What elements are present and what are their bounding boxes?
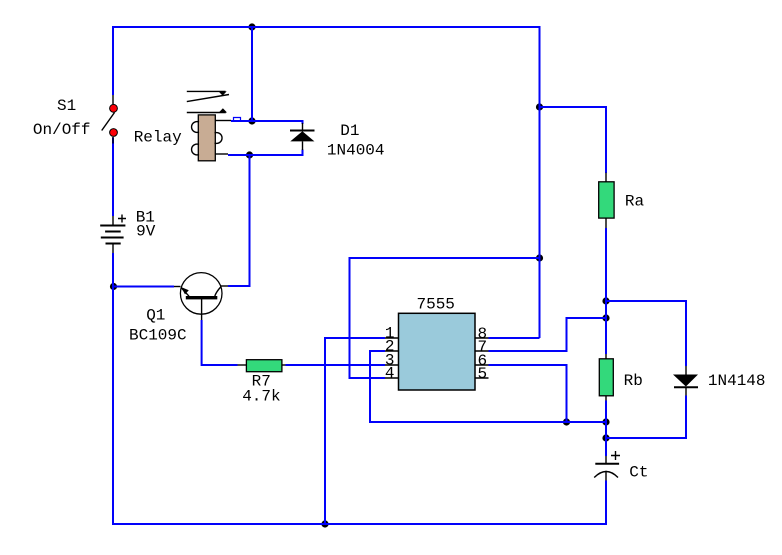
battery B1 xyxy=(100,215,126,254)
label Relay xyxy=(134,129,182,147)
wire Ra bottom to Rb top xyxy=(605,228,607,354)
svg-text:D1: D1 xyxy=(340,122,359,140)
wire S1 top xyxy=(112,26,114,95)
pin 1 xyxy=(385,325,395,343)
wire V+ vertical xyxy=(539,26,541,338)
svg-text:Ra: Ra xyxy=(625,193,645,211)
wire to Ra top xyxy=(540,107,607,173)
label Rb xyxy=(624,372,643,390)
label Q1 xyxy=(146,307,165,325)
svg-text:7555: 7555 xyxy=(417,296,455,314)
svg-text:5: 5 xyxy=(478,365,488,383)
junction Ct top xyxy=(602,434,609,441)
wire diode branch bottom xyxy=(606,396,686,439)
svg-text:Relay: Relay xyxy=(134,129,182,147)
wire base to R7 xyxy=(202,320,238,365)
pin 4 xyxy=(385,365,395,383)
wire battery to bottom rail xyxy=(112,253,114,525)
wire pin4 to V+ xyxy=(350,258,540,378)
svg-text:On/Off: On/Off xyxy=(33,121,91,139)
svg-text:1N4004: 1N4004 xyxy=(327,142,385,160)
pin 6 xyxy=(478,352,488,370)
wire pin2 xyxy=(370,351,606,422)
pin 7 xyxy=(478,338,488,356)
wire pin8 xyxy=(489,337,540,339)
wire bottom rail xyxy=(112,523,607,525)
junction ground pin1 xyxy=(321,520,328,527)
junction Rb bottom xyxy=(602,418,609,425)
wire Ct bottom xyxy=(605,481,607,526)
wire diode branch top xyxy=(606,301,686,366)
wire relay bottom to D1 xyxy=(228,150,303,156)
junction pin7 Rb xyxy=(602,314,609,321)
label 4.7k xyxy=(242,388,280,406)
wire top rail xyxy=(113,26,540,28)
label 1N4148 xyxy=(708,372,766,390)
label 9V xyxy=(136,223,156,241)
junction Ra bottom xyxy=(602,297,609,304)
label Ra xyxy=(625,193,645,211)
wire S1 to battery xyxy=(112,138,114,217)
junction relay top xyxy=(248,117,255,124)
relay xyxy=(187,91,231,160)
label BC109C xyxy=(129,327,187,345)
resistor R7 xyxy=(238,360,286,372)
wire pin7 xyxy=(489,318,607,351)
label D1 xyxy=(340,122,359,140)
svg-text:BC109C: BC109C xyxy=(129,327,187,345)
pin 8 xyxy=(478,325,488,343)
wire R7 to pin3 xyxy=(286,364,386,366)
junction Vplus Ra xyxy=(536,103,543,110)
diode 1N4148 xyxy=(673,366,698,396)
svg-text:Rb: Rb xyxy=(624,372,643,390)
wire Rb bottom to Ct xyxy=(605,401,607,457)
IC 7555 xyxy=(385,313,489,390)
label R7 xyxy=(252,373,271,391)
junction Vplus pin4 xyxy=(536,254,543,261)
label On/Off xyxy=(33,121,91,139)
svg-text:Ct: Ct xyxy=(629,464,648,482)
junction pin6 xyxy=(563,418,570,425)
svg-text:Q1: Q1 xyxy=(146,307,165,325)
diode D1 xyxy=(290,123,315,150)
resistor Rb xyxy=(599,354,613,401)
junction top rail xyxy=(248,23,255,30)
svg-text:9V: 9V xyxy=(136,223,156,241)
wire pin6 xyxy=(489,365,567,422)
label S1 xyxy=(57,97,76,115)
label B1 xyxy=(136,209,155,227)
svg-text:4: 4 xyxy=(385,365,395,383)
wire collector to relay xyxy=(228,155,250,286)
capacitor Ct xyxy=(594,451,620,481)
svg-text:S1: S1 xyxy=(57,97,76,115)
svg-text:1N4148: 1N4148 xyxy=(708,372,766,390)
pin 2 xyxy=(385,338,395,356)
switch S1 xyxy=(102,95,118,144)
pin 3 xyxy=(385,352,395,370)
label 7555 xyxy=(417,296,455,314)
label 1N4004 xyxy=(327,142,385,160)
wire emitter xyxy=(113,286,174,288)
wire top rail to relay contact xyxy=(251,27,253,121)
resistor Ra xyxy=(599,173,614,228)
pin 5 xyxy=(478,365,488,383)
transistor Q1 xyxy=(174,273,228,320)
junction relay bottom xyxy=(246,151,253,158)
wire pin1 to ground xyxy=(325,338,385,524)
node relay coil terminal marker xyxy=(234,118,241,122)
junction emitter xyxy=(110,283,117,290)
label Ct xyxy=(629,464,648,482)
wire relay top to D1 xyxy=(231,121,303,124)
svg-text:4.7k: 4.7k xyxy=(242,388,280,406)
